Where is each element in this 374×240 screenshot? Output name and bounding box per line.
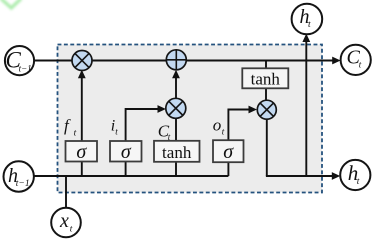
wire: top tanh to output multiply xyxy=(265,88,267,100)
wire: output gate path with arrow xyxy=(228,110,249,141)
svg-text:t: t xyxy=(70,224,73,234)
wire: branch into top tanh xyxy=(265,61,267,69)
wire: h(t-1) line xyxy=(33,175,229,177)
sigma box (output gate) xyxy=(213,140,244,163)
node ht right output circle xyxy=(340,160,370,190)
wire: forget box input stub xyxy=(81,161,83,176)
sigma box (forget gate) xyxy=(66,141,98,163)
label ot xyxy=(213,116,225,137)
multiply node (output) xyxy=(257,100,276,119)
svg-text:x: x xyxy=(59,210,69,232)
svg-text:t: t xyxy=(74,128,77,138)
wire: candidate tanh input stub xyxy=(175,162,177,177)
svg-text:t−1: t−1 xyxy=(16,179,30,189)
tanh box (candidate) xyxy=(154,141,200,162)
wire: C line (Ct-1 to Ct) xyxy=(34,60,333,62)
svg-text:t: t xyxy=(308,20,311,30)
svg-text:tanh: tanh xyxy=(251,70,281,89)
label ft xyxy=(64,116,77,139)
wire: input gate path with arrow xyxy=(126,109,159,142)
wire: candidate tanh up to multiply xyxy=(175,117,177,141)
node ht-1 input circle xyxy=(4,161,34,191)
svg-text:o: o xyxy=(213,116,222,135)
wire: ht branch up to top circle xyxy=(305,36,307,177)
svg-text:σ: σ xyxy=(121,141,132,163)
svg-text:t: t xyxy=(357,177,360,187)
wire: output box input stub xyxy=(227,162,229,176)
tanh box (top, cell state) xyxy=(242,68,288,88)
wire: output line right to ht xyxy=(266,175,333,177)
label Ct (candidate) xyxy=(158,121,171,142)
wire: xt up xyxy=(65,175,67,208)
node ht top output circle xyxy=(292,4,323,35)
green chevron watermark xyxy=(1,0,21,8)
wire: output multiply down xyxy=(266,119,268,176)
node Ct output circle xyxy=(341,45,371,75)
arrowhead into Ct xyxy=(332,57,340,65)
svg-text:tanh: tanh xyxy=(162,143,192,162)
svg-text:σ: σ xyxy=(76,141,87,163)
sigma box (input gate) xyxy=(110,141,142,163)
multiply node (input) xyxy=(166,98,186,118)
node Ct-1 input circle xyxy=(5,46,34,75)
label it xyxy=(111,118,119,137)
LSTM cell dashed box xyxy=(58,45,323,193)
wire: multiply to add with arrow xyxy=(175,72,177,99)
wire: input box input stub xyxy=(125,161,127,176)
multiply node (forget) xyxy=(72,51,92,71)
svg-text:t−1: t−1 xyxy=(19,63,32,73)
wire: forget gate up with arrow xyxy=(81,72,83,142)
svg-text:σ: σ xyxy=(223,141,234,163)
node xt input circle xyxy=(51,208,81,238)
add node xyxy=(166,50,186,70)
